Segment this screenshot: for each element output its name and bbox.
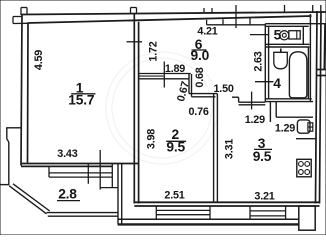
balcony front south xyxy=(118,219,299,224)
svg-text:9.0: 9.0 xyxy=(191,48,210,63)
wall left outer xyxy=(21,15,28,166)
left balcony xyxy=(1,128,122,225)
door tick room2 xyxy=(163,62,165,88)
bathroom bottom wall xyxy=(265,99,313,102)
toilet bowl xyxy=(280,31,289,40)
svg-text:5: 5 xyxy=(274,27,282,42)
vent box xyxy=(297,120,310,133)
svg-text:0.68: 0.68 xyxy=(194,67,206,87)
svg-text:3.31: 3.31 xyxy=(224,139,236,159)
svg-text:3.43: 3.43 xyxy=(57,148,77,160)
svg-text:3.98: 3.98 xyxy=(146,129,158,149)
svg-text:9.5: 9.5 xyxy=(166,140,185,155)
svg-text:4.21: 4.21 xyxy=(197,26,217,38)
wall top outer xyxy=(21,12,326,23)
kitchen niche xyxy=(270,102,315,139)
window under room2 xyxy=(156,206,210,219)
svg-text:0.76: 0.76 xyxy=(188,106,208,118)
room 5 walls xyxy=(265,14,326,102)
svg-text:4: 4 xyxy=(273,76,281,91)
kitchen door tick xyxy=(251,92,253,110)
svg-text:15.7: 15.7 xyxy=(68,93,95,108)
svg-text:1.29: 1.29 xyxy=(275,122,295,134)
window under room3 xyxy=(250,206,286,219)
wall room1-room2 xyxy=(134,14,138,204)
stove xyxy=(297,159,311,177)
room1 south wall + window xyxy=(21,164,139,167)
bottom wall xyxy=(134,202,319,206)
pilaster mid top xyxy=(131,8,137,14)
svg-text:3.21: 3.21 xyxy=(254,191,274,203)
svg-text:1.89: 1.89 xyxy=(165,63,185,75)
toilet door leaf xyxy=(250,34,268,36)
svg-text:9.5: 9.5 xyxy=(253,149,272,164)
cistern xyxy=(289,31,300,39)
ticks above top wall xyxy=(127,5,321,42)
step to hall xyxy=(232,97,265,105)
pilaster top-left xyxy=(13,8,28,24)
watermark xyxy=(106,52,218,164)
svg-text:1.50: 1.50 xyxy=(213,83,233,95)
bathtub xyxy=(289,52,307,98)
texts: room labels xyxy=(57,27,282,201)
svg-text:2.63: 2.63 xyxy=(253,51,265,71)
svg-text:1.29: 1.29 xyxy=(245,114,265,126)
entrance door strip xyxy=(207,18,266,25)
svg-text:2.51: 2.51 xyxy=(164,190,184,202)
corridor zigzag wall A xyxy=(139,74,191,79)
dimension texts xyxy=(33,26,295,203)
svg-text:2.8: 2.8 xyxy=(58,187,77,202)
svg-text:1.72: 1.72 xyxy=(148,41,160,61)
sink xyxy=(274,52,288,69)
wall room2-room3 xyxy=(214,94,218,203)
right pier xyxy=(299,206,315,230)
wall C xyxy=(189,94,217,97)
wall right outer xyxy=(316,11,326,204)
svg-text:4.59: 4.59 xyxy=(33,50,45,70)
svg-text:0.67: 0.67 xyxy=(175,80,192,103)
wall B xyxy=(189,74,192,97)
